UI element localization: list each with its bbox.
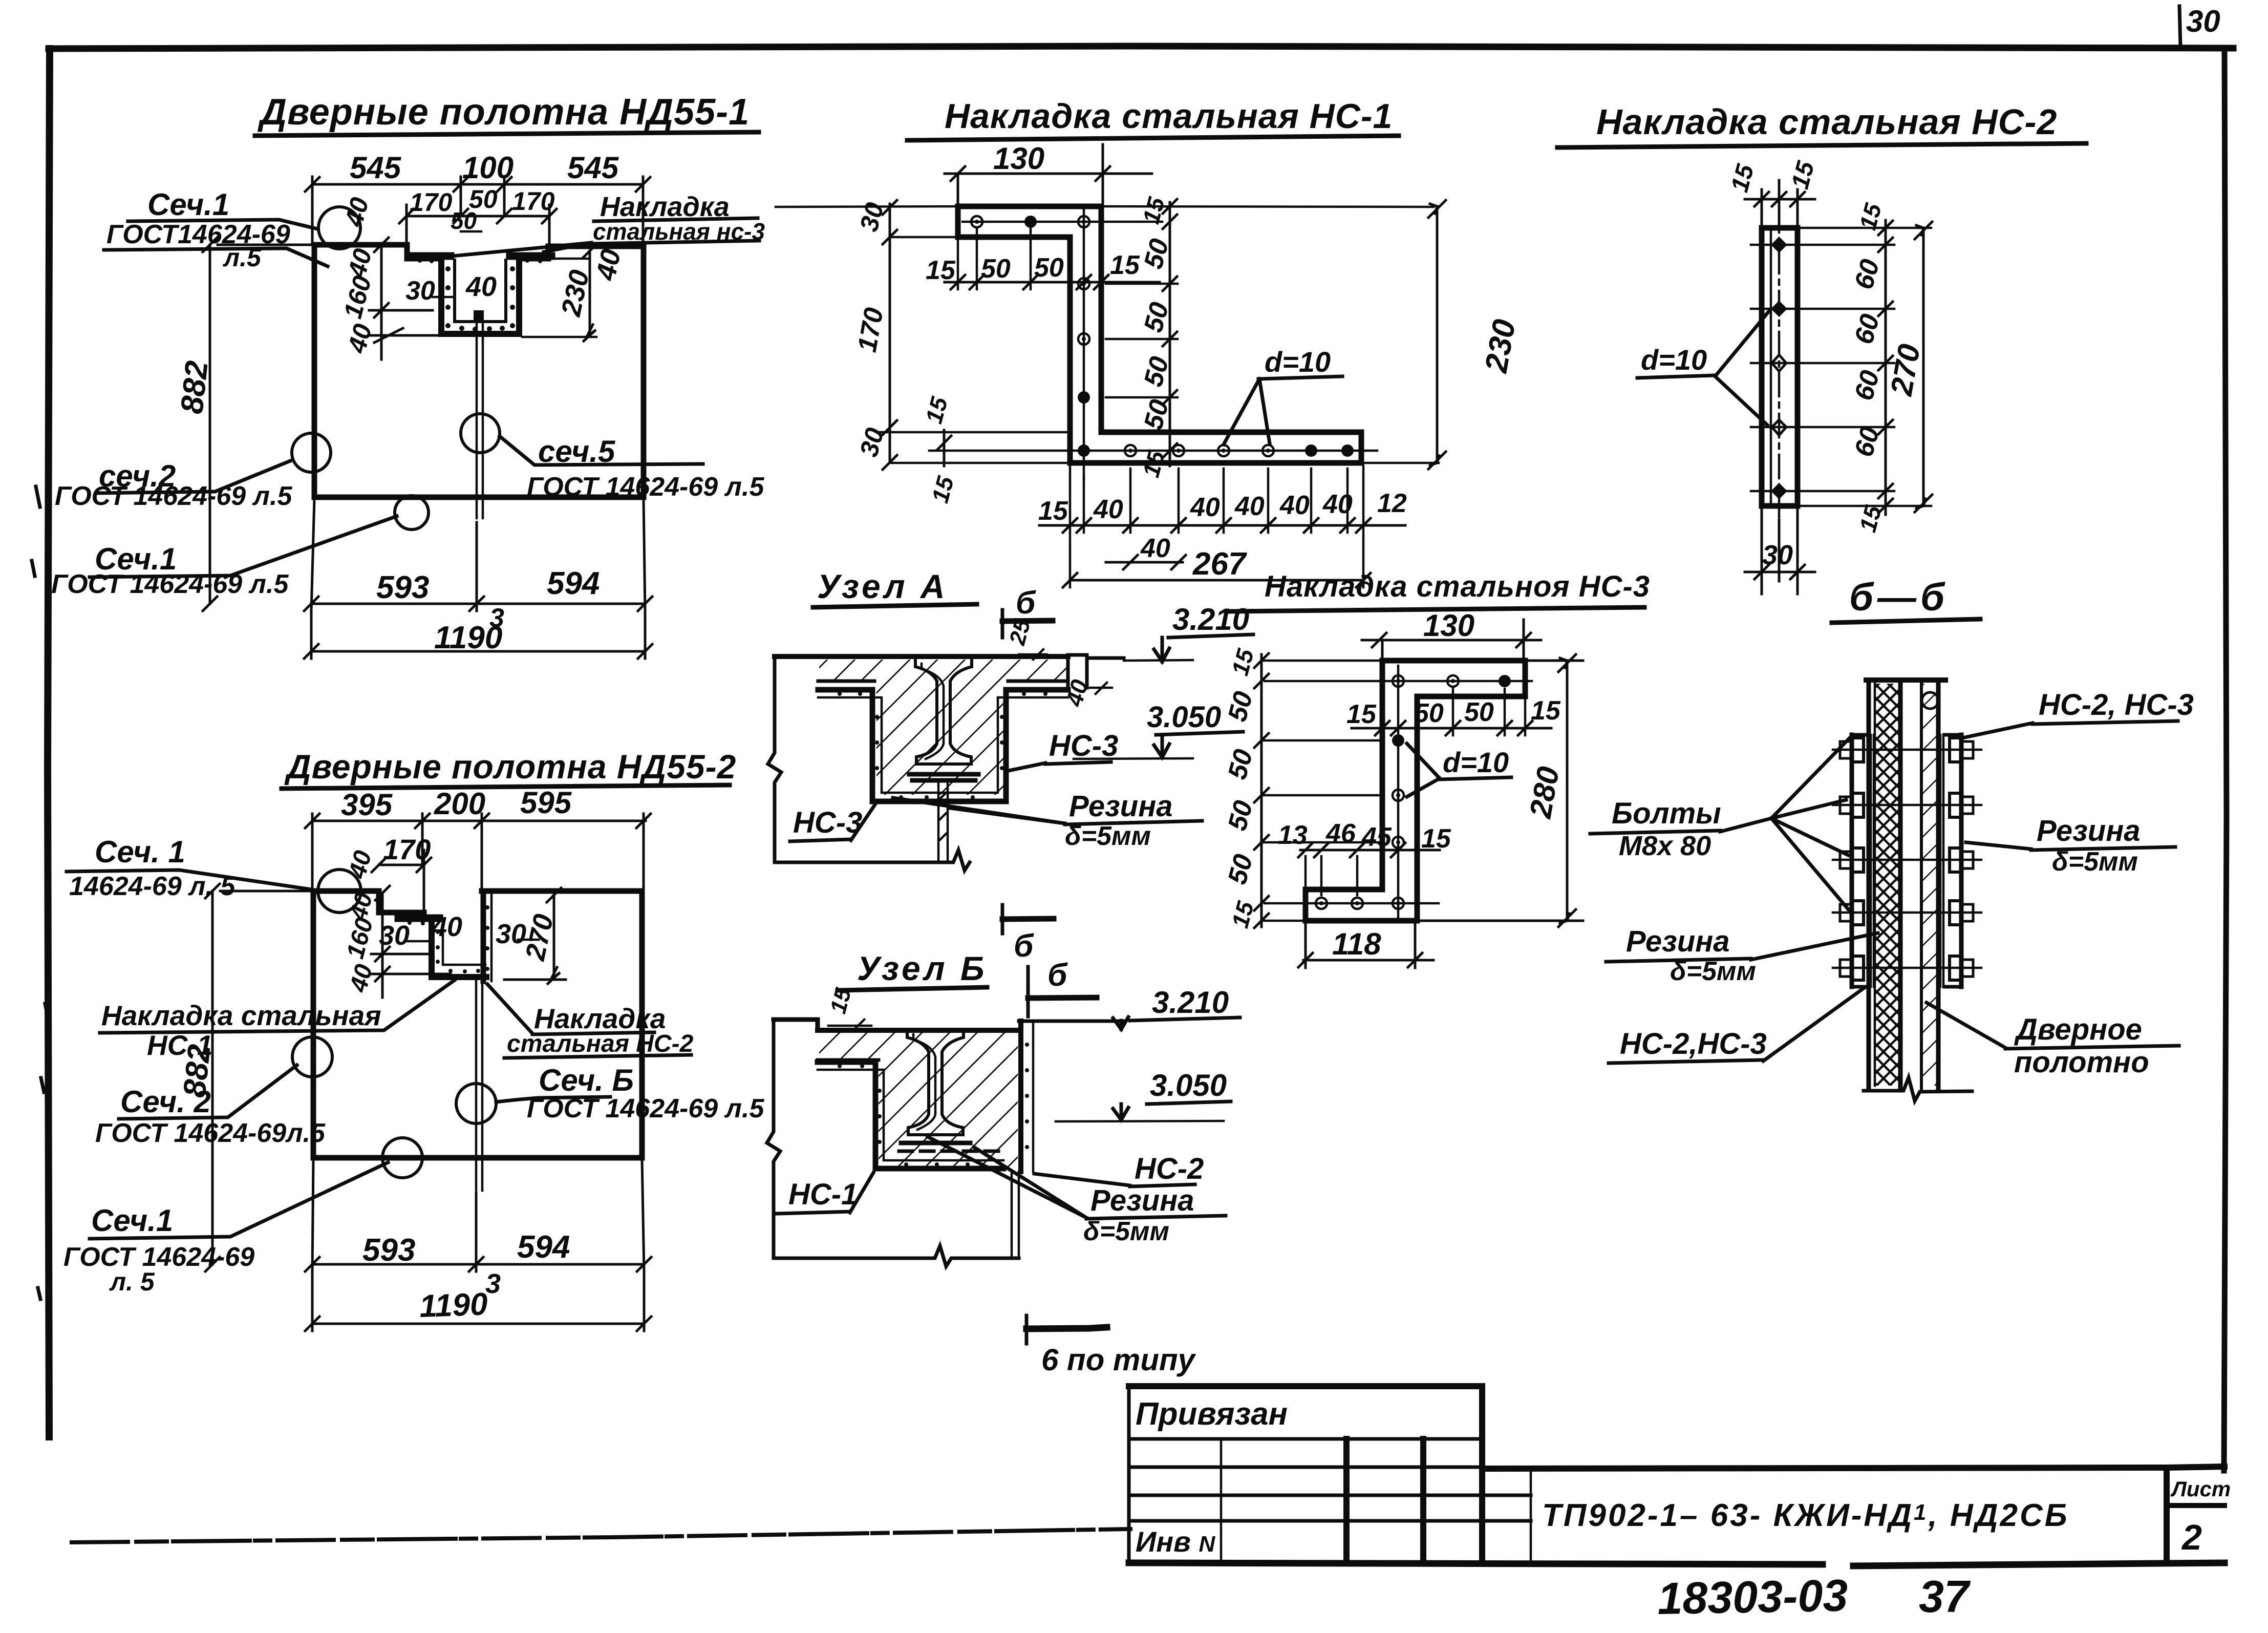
svg-text:Сеч. 2: Сеч. 2 xyxy=(120,1085,211,1119)
svg-text:ГОСТ 14624-69 л.5: ГОСТ 14624-69 л.5 xyxy=(55,481,292,511)
svg-text:30: 30 xyxy=(405,276,435,306)
sub dim line 170 50 170 xyxy=(406,205,549,246)
svg-text:Сеч.1: Сеч.1 xyxy=(91,1203,173,1238)
svg-text:50: 50 xyxy=(981,254,1011,284)
beam hatch xyxy=(879,1060,1018,1169)
svg-text:15: 15 xyxy=(1421,824,1451,854)
svg-text:δ=5мм: δ=5мм xyxy=(2052,847,2138,877)
plate dots xyxy=(838,692,1047,799)
svg-text:40: 40 xyxy=(1093,495,1123,524)
leaf verticals xyxy=(1869,680,1900,1090)
svg-text:545: 545 xyxy=(350,151,402,185)
bottom dim line 15 40x5 12 xyxy=(1039,524,1405,527)
left dim 882 xyxy=(212,891,310,1264)
svg-text:200: 200 xyxy=(434,787,485,821)
svg-text:30: 30 xyxy=(379,920,410,951)
svg-text:13: 13 xyxy=(1278,820,1308,850)
DRAWING D : НС-2 xyxy=(1557,102,2086,594)
svg-text:3.050: 3.050 xyxy=(1147,701,1221,734)
I-beam profile hanging xyxy=(907,1030,964,1135)
svg-text:Сеч. Б: Сеч. Б xyxy=(539,1063,634,1097)
dim 118 xyxy=(1303,924,1433,968)
svg-text:40: 40 xyxy=(431,911,462,942)
svg-text:18303-03: 18303-03 xyxy=(1657,1570,1849,1624)
section mark б top xyxy=(1001,610,1004,638)
svg-text:593: 593 xyxy=(376,570,429,605)
svg-text:170: 170 xyxy=(512,187,555,216)
svg-text:Резина: Резина xyxy=(1090,1184,1194,1217)
title underline xyxy=(1832,619,1980,623)
section mark 6 по типу xyxy=(1025,1316,1029,1344)
svg-text:Накладка стальная НС-1: Накладка стальная НС-1 xyxy=(945,97,1393,136)
svg-text:130: 130 xyxy=(1423,608,1474,643)
svg-text:Болты: Болты xyxy=(1612,797,1721,830)
НС-2 plate dots xyxy=(485,905,489,971)
dim 130 xyxy=(1362,620,1541,661)
extension lines left chain xyxy=(1261,661,1382,921)
svg-text:δ=5мм: δ=5мм xyxy=(1670,957,1756,986)
svg-text:545: 545 xyxy=(567,151,619,185)
svg-text:395: 395 xyxy=(341,788,393,822)
left leaf insulation fill xyxy=(1876,684,1898,1086)
plate centreline xyxy=(1778,209,1781,517)
door panel outline xyxy=(314,245,644,497)
left plate xyxy=(1850,735,1854,987)
svg-text:595: 595 xyxy=(520,786,572,820)
holes top arm xyxy=(1393,675,1511,687)
TITLE BLOCK xyxy=(1129,1386,2231,1624)
svg-text:НС-2, НС-3: НС-2, НС-3 xyxy=(2039,688,2194,722)
hole rows extension lines xyxy=(1751,228,1931,506)
НС-2 plate right xyxy=(1018,1021,1023,1172)
svg-text:3.210: 3.210 xyxy=(1152,985,1229,1020)
left 15 labels xyxy=(937,430,951,466)
svg-text:Привязан: Привязан xyxy=(1136,1396,1288,1432)
right leaf hatch fill xyxy=(1923,684,1937,1086)
slab hatch xyxy=(819,660,1067,681)
svg-text:Лист: Лист xyxy=(2170,1477,2231,1501)
bottom dim line 1190 xyxy=(312,1271,644,1331)
slab bottom edges xyxy=(818,680,1068,683)
holes foot xyxy=(1316,898,1404,909)
left chain dim line xyxy=(1260,654,1263,927)
plate inner edge xyxy=(1770,229,1772,505)
title band bottom line xyxy=(1129,1563,2224,1566)
title underline xyxy=(907,136,1399,140)
svg-text:882: 882 xyxy=(174,359,215,415)
section mark б top xyxy=(1026,967,1030,1016)
svg-text:130: 130 xyxy=(993,141,1044,176)
DRAWING H : б-б xyxy=(1590,576,2194,1101)
svg-text:стальная НС-2: стальная НС-2 xyxy=(507,1030,694,1057)
channel right flange xyxy=(510,252,551,260)
svg-text:полотно: полотно xyxy=(2014,1046,2149,1079)
top dim line 545 100 545 xyxy=(312,183,643,186)
left dim 882 xyxy=(210,245,310,604)
svg-text:3.210: 3.210 xyxy=(1172,602,1249,637)
svg-text:30: 30 xyxy=(1762,540,1793,570)
svg-text:40: 40 xyxy=(1190,493,1220,522)
DRAWING C : НС-1 xyxy=(776,97,1523,587)
svg-text:ГОСТ 14624-69л.5: ГОСТ 14624-69л.5 xyxy=(95,1118,326,1148)
svg-text:НС-3: НС-3 xyxy=(1049,729,1118,762)
beam hatch xyxy=(876,681,1007,795)
svg-text:d=10: d=10 xyxy=(1641,344,1707,376)
svg-text:594: 594 xyxy=(517,1229,570,1265)
svg-text:37: 37 xyxy=(1919,1571,1971,1622)
right inner dim 230 40 xyxy=(522,259,596,337)
svg-text:15: 15 xyxy=(1346,699,1377,729)
svg-text:45: 45 xyxy=(1361,822,1392,852)
svg-text:40: 40 xyxy=(1234,492,1265,521)
svg-text:ГОСТ 14624-69 л.5: ГОСТ 14624-69 л.5 xyxy=(527,1094,764,1123)
title underline xyxy=(1230,607,1644,611)
door leaf below xyxy=(1012,1172,1019,1258)
title underline xyxy=(838,987,987,990)
DRAWING G : НС-3 xyxy=(1223,570,1650,968)
left border xyxy=(48,49,50,1437)
svg-text:Резина: Резина xyxy=(1626,925,1730,958)
svg-text:Узел Б: Узел Б xyxy=(857,949,988,987)
DRAWING B : НД55-2 xyxy=(63,748,764,1331)
top detail circle xyxy=(1922,692,1938,709)
bottom border (faded scan line) xyxy=(72,1529,1130,1542)
section circle left xyxy=(292,433,331,472)
I-beam base plate xyxy=(909,774,978,780)
svg-text:40: 40 xyxy=(1322,490,1353,519)
I-beam profile xyxy=(915,659,972,764)
svg-text:Дверные полотна НД55-1: Дверные полотна НД55-1 xyxy=(257,92,750,133)
svg-text:б: б xyxy=(1014,928,1034,964)
svg-text:15: 15 xyxy=(1038,496,1068,526)
door panel outline xyxy=(313,891,642,1158)
dim 130 xyxy=(945,144,1152,206)
svg-text:л. 5: л. 5 xyxy=(109,1267,155,1296)
svg-text:Сеч. 1: Сеч. 1 xyxy=(95,835,185,869)
svg-text:50: 50 xyxy=(1414,698,1444,728)
small table box xyxy=(1129,1386,1482,1563)
section circle bottom xyxy=(395,496,429,529)
dim 40 second row xyxy=(1106,555,1186,569)
title underline xyxy=(282,785,730,789)
Z plate inner line xyxy=(443,922,485,965)
channel left flange xyxy=(409,252,451,260)
dim 230 right xyxy=(1436,206,1439,463)
svg-text:Накладка стальная: Накладка стальная xyxy=(101,1000,381,1031)
НС-2 plate vertical xyxy=(481,891,486,981)
joint double line xyxy=(476,981,482,1191)
svg-text:δ=5мм: δ=5мм xyxy=(1065,821,1151,851)
joint double line xyxy=(477,322,483,518)
bottom cap with break xyxy=(1864,1077,1972,1101)
svg-text:Резина: Резина xyxy=(2037,814,2141,847)
svg-text:НС-1: НС-1 xyxy=(788,1178,858,1211)
holes vertical arm xyxy=(1078,278,1090,404)
left break edge xyxy=(767,1020,780,1258)
svg-text:б: б xyxy=(1047,958,1068,993)
svg-text:40: 40 xyxy=(465,271,497,302)
svg-text:d=10: d=10 xyxy=(1443,746,1509,778)
left small dims 40 160 40 xyxy=(371,893,451,998)
svg-text:НС-3: НС-3 xyxy=(793,806,862,839)
svg-text:Дверные полотна НД55-2: Дверные полотна НД55-2 xyxy=(284,748,736,786)
svg-text:15: 15 xyxy=(1531,696,1561,726)
svg-text:б: б xyxy=(1016,585,1036,621)
plate outline xyxy=(958,206,1361,463)
svg-text:46: 46 xyxy=(1325,819,1356,849)
НС-1 plate Z inner xyxy=(818,1070,1003,1160)
svg-text:594: 594 xyxy=(547,566,600,601)
Лист box xyxy=(2164,1468,2170,1563)
svg-text:Накладка стальная НС-2: Накладка стальная НС-2 xyxy=(1596,102,2057,142)
holes vertical arm xyxy=(1392,734,1404,848)
plate bumps at bolts xyxy=(1852,738,1961,980)
svg-text:267: 267 xyxy=(1192,546,1247,582)
svg-text:3.050: 3.050 xyxy=(1150,1068,1227,1102)
svg-text:б—б: б—б xyxy=(1849,576,1949,619)
svg-text:ГОСТ 14624-69 л.5: ГОСТ 14624-69 л.5 xyxy=(51,569,289,599)
slab top edge xyxy=(775,654,1068,659)
svg-text:Узел А: Узел А xyxy=(817,567,948,605)
bottom edge with break xyxy=(775,850,970,871)
top border xyxy=(49,46,2233,49)
extension lines xyxy=(776,206,1439,463)
holes xyxy=(1771,237,1787,499)
dim 270 xyxy=(1922,228,1925,506)
dim 270 xyxy=(504,895,566,980)
slab hatch xyxy=(819,1032,1018,1060)
plate dots xyxy=(838,1064,970,1167)
title underline xyxy=(813,604,977,607)
right plate xyxy=(1959,735,1964,987)
section circle top left xyxy=(318,869,361,913)
svg-text:Сеч.1: Сеч.1 xyxy=(147,187,229,222)
section mark б bottom xyxy=(1001,905,1004,934)
right chain 15 60x4 15 xyxy=(1885,220,1887,515)
joint plug xyxy=(474,310,484,322)
rubber joint strip below beam xyxy=(938,783,948,862)
Z plate flange xyxy=(398,915,439,922)
table row lines xyxy=(1129,1437,1482,1441)
dim 15 50 50 15 top arm xyxy=(1352,727,1551,730)
НС-3 plate U outer xyxy=(818,690,1068,801)
left margin specks xyxy=(32,486,48,1299)
rubber layers xyxy=(1871,735,1943,987)
svg-text:НС-2: НС-2 xyxy=(1135,1152,1204,1185)
svg-text:Накладка: Накладка xyxy=(534,1003,666,1034)
svg-text:d=10: d=10 xyxy=(1265,346,1331,378)
svg-text:30: 30 xyxy=(2186,4,2220,38)
hole centrelines xyxy=(929,209,1377,479)
title band top line xyxy=(1482,1467,2224,1469)
adjacent panel top right xyxy=(1019,1020,1124,1023)
svg-text:Резина: Резина xyxy=(1069,790,1173,823)
svg-text:50: 50 xyxy=(1464,697,1494,727)
svg-text:1190: 1190 xyxy=(419,1286,488,1324)
svg-text:НС-2,НС-3: НС-2,НС-3 xyxy=(1620,1027,1767,1061)
bolt rows xyxy=(1833,738,1981,980)
section circle left xyxy=(292,1037,332,1077)
table vertical lines xyxy=(1220,1439,1223,1563)
bottom dim line 593 594 xyxy=(311,603,645,605)
svg-text:ТП902-1– 63- КЖИ-НД1, НД2СБ: ТП902-1– 63- КЖИ-НД1, НД2СБ xyxy=(1542,1498,2069,1533)
svg-text:л.5: л.5 xyxy=(223,243,262,272)
rubber dashed seam xyxy=(899,1150,1006,1153)
svg-text:ГОСТ 14624-69: ГОСТ 14624-69 xyxy=(63,1242,254,1272)
svg-text:3: 3 xyxy=(485,1268,501,1299)
svg-text:40: 40 xyxy=(590,246,627,283)
svg-text:Накладка стальноя НС-3: Накладка стальноя НС-3 xyxy=(1265,570,1650,603)
kerb block right xyxy=(1068,655,1087,688)
plate outline xyxy=(1306,661,1525,921)
svg-text:1190: 1190 xyxy=(434,620,502,655)
dim 15 50 50 15 top arm xyxy=(945,281,1160,284)
slab top edge xyxy=(818,1028,1019,1033)
top edge right of block xyxy=(1087,656,1124,660)
svg-text:50: 50 xyxy=(1034,253,1064,283)
svg-text:М8х 80: М8х 80 xyxy=(1619,831,1711,861)
channel inner wall xyxy=(455,260,506,322)
svg-text:170: 170 xyxy=(383,833,431,865)
svg-text:15: 15 xyxy=(926,256,956,285)
title underline xyxy=(1557,143,2086,147)
right border xyxy=(2224,48,2227,1471)
section circle centre xyxy=(456,1084,496,1123)
svg-text:170: 170 xyxy=(410,188,453,217)
page number mark top right xyxy=(2179,6,2180,47)
section circle top left xyxy=(318,207,360,249)
DRAWING F : Узел Б xyxy=(767,949,1240,1377)
top cap xyxy=(1866,677,1945,683)
svg-text:118: 118 xyxy=(1332,927,1381,961)
left break edge xyxy=(768,656,781,862)
top dim line 395 200 595 xyxy=(312,820,646,822)
title underline xyxy=(255,132,759,136)
НС-3 plate U inner xyxy=(818,697,1068,793)
bottom dim line 593 594 xyxy=(312,1263,644,1266)
left dim chain 30 170 30 xyxy=(889,204,891,462)
right chain 15 50 50 50 50 xyxy=(1169,202,1171,466)
svg-text:ГОСТ14624-69: ГОСТ14624-69 xyxy=(106,220,290,249)
bottom hole extension lines xyxy=(1070,466,1363,587)
left small dims 40 160 40 xyxy=(369,245,453,359)
top dim 15 15 xyxy=(1745,180,1815,228)
slab bottom edge left xyxy=(818,1058,879,1062)
top-left edge xyxy=(774,1020,818,1030)
svg-text:δ=5мм: δ=5мм xyxy=(1083,1217,1169,1246)
dim 267 xyxy=(1070,579,1363,582)
bottom chain 13 46 45 15 xyxy=(1300,849,1440,852)
svg-text:40: 40 xyxy=(1279,491,1310,520)
bottom dim line 1190 xyxy=(311,611,645,659)
I-beam base plate xyxy=(901,1141,970,1146)
plate body xyxy=(1762,228,1798,506)
svg-text:12: 12 xyxy=(1377,489,1407,518)
dim 280 right xyxy=(1420,661,1583,921)
hole centrelines xyxy=(1265,666,1532,918)
holes bottom arm xyxy=(1078,444,1354,457)
Z plate wall xyxy=(432,918,486,977)
svg-text:14624-69 л. 5: 14624-69 л. 5 xyxy=(69,872,236,901)
channel outer wall xyxy=(441,256,519,334)
channel dots xyxy=(418,259,542,332)
svg-text:Дверное: Дверное xyxy=(2014,1013,2142,1046)
НС-1 plate Z outer xyxy=(818,1062,1003,1169)
svg-text:50: 50 xyxy=(451,207,477,234)
DRAWING A : НД55-1 xyxy=(51,92,765,659)
svg-text:ГОСТ 14624-69 л.5: ГОСТ 14624-69 л.5 xyxy=(527,472,764,502)
svg-text:НС-1: НС-1 xyxy=(147,1029,212,1061)
holes top arm xyxy=(971,216,1089,228)
svg-text:6 по типу: 6 по типу xyxy=(1041,1343,1196,1377)
svg-text:15: 15 xyxy=(1110,250,1140,280)
sub dim 170 xyxy=(379,850,424,915)
section circle bottom xyxy=(382,1138,422,1178)
svg-text:593: 593 xyxy=(362,1233,415,1268)
section circle centre xyxy=(461,414,500,453)
bottom edge with break xyxy=(774,1246,1019,1266)
bottom dim 30 xyxy=(1745,510,1815,594)
Z plate dots xyxy=(408,921,480,973)
svg-text:40: 40 xyxy=(1140,534,1170,563)
DRAWING E : Узел А xyxy=(768,567,1253,964)
svg-text:100: 100 xyxy=(462,151,513,185)
svg-text:2: 2 xyxy=(2181,1517,2202,1557)
